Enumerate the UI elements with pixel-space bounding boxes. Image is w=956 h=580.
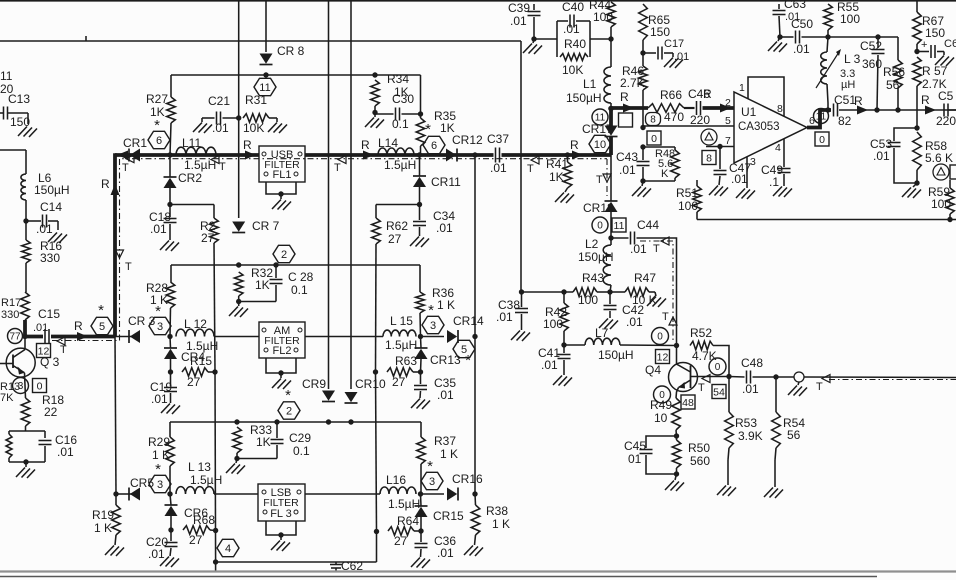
svg-text:C43: C43	[616, 150, 638, 164]
svg-text:C52: C52	[860, 39, 882, 53]
svg-text:560: 560	[690, 454, 710, 468]
svg-text:CR16: CR16	[452, 472, 483, 486]
wire bottom border	[0, 572, 956, 577]
resistor R15	[182, 354, 215, 389]
inductor L13	[176, 460, 222, 494]
svg-text:R: R	[921, 93, 930, 107]
hex node 3 c	[149, 461, 171, 493]
text T bus b	[334, 156, 346, 175]
svg-text:2.7K: 2.7K	[620, 76, 645, 90]
node C43 top	[640, 144, 645, 149]
wire bus vert thin	[115, 337, 116, 495]
svg-text:360: 360	[862, 57, 882, 71]
svg-text:K: K	[661, 168, 669, 180]
svg-text:7: 7	[725, 135, 731, 147]
wire out to jack	[776, 376, 794, 378]
wire top feed to CR10	[350, 0, 352, 389]
square node 12 a	[37, 344, 51, 358]
transistor Q3	[0, 337, 35, 399]
svg-text:L14: L14	[378, 136, 398, 150]
diode CR3	[128, 314, 156, 343]
svg-text:C63: C63	[784, 0, 806, 11]
svg-text:*: *	[285, 387, 291, 404]
node R50 bottom	[674, 471, 679, 476]
wire FL2 to L15	[305, 336, 383, 338]
node CR3 L12	[167, 334, 172, 339]
resistor R58	[913, 132, 953, 183]
svg-text:8: 8	[650, 115, 656, 126]
svg-text:R37: R37	[434, 434, 456, 448]
svg-text:R47: R47	[634, 271, 656, 285]
svg-text:T: T	[653, 243, 660, 255]
svg-text:2: 2	[286, 406, 292, 418]
arrow T C42	[662, 311, 677, 325]
svg-text:.01: .01	[510, 14, 527, 28]
resistor R32	[234, 266, 273, 302]
wire CR18 to C44 node	[610, 212, 612, 238]
svg-text:T: T	[60, 344, 67, 356]
svg-text:1.5µH: 1.5µH	[384, 158, 416, 172]
transistor Q4	[669, 346, 730, 399]
node CR9 railC	[326, 419, 331, 424]
svg-text:.01: .01	[731, 172, 748, 186]
ground C34	[410, 237, 429, 248]
node Q4 out	[726, 374, 731, 379]
ground R19	[105, 546, 124, 557]
text R13	[0, 381, 20, 404]
capacitor C30	[375, 92, 421, 131]
bracket C45 R50	[624, 436, 677, 474]
node R58 top	[914, 125, 919, 130]
capacitor C46	[684, 87, 734, 127]
jack circle	[794, 372, 804, 382]
wire top sheet edge	[0, 0, 956, 2]
node R42 bottom	[561, 342, 566, 347]
node R56 bottom	[895, 107, 900, 112]
arrow hexrow	[74, 319, 88, 341]
wire rail B	[171, 264, 420, 266]
bracket C16	[6, 431, 77, 462]
svg-text:0: 0	[657, 332, 663, 343]
ground C19	[161, 404, 180, 415]
svg-text:L 12: L 12	[184, 317, 207, 331]
wire CR14 CR16 vertical	[474, 155, 476, 494]
bracket C53	[870, 128, 917, 183]
ground C63	[768, 37, 787, 52]
svg-text:*: *	[425, 121, 431, 138]
svg-text:*: *	[155, 303, 161, 320]
node C21 CR7line	[236, 115, 241, 120]
svg-text:.01: .01	[742, 382, 759, 396]
svg-text:R15: R15	[190, 354, 212, 368]
diode CR2	[164, 155, 203, 205]
hex node 5 a	[91, 302, 113, 335]
inductor L11	[176, 136, 216, 172]
svg-text:FL1: FL1	[273, 169, 292, 181]
svg-text:27: 27	[388, 232, 402, 246]
svg-text:R63: R63	[395, 354, 417, 368]
svg-text:.01: .01	[619, 163, 636, 177]
svg-text:R51: R51	[676, 186, 698, 200]
svg-text:R19: R19	[92, 508, 114, 522]
svg-text:µH: µH	[841, 79, 855, 91]
wire C44 to Q4 base	[637, 238, 677, 346]
svg-text:470: 470	[664, 110, 684, 124]
hex node 11 a	[254, 78, 276, 95]
svg-text:3: 3	[429, 476, 435, 488]
svg-text:R: R	[570, 138, 579, 152]
resistor R59	[928, 180, 954, 220]
node CR5 L13	[167, 491, 172, 496]
svg-text:C40: C40	[562, 0, 584, 14]
square node 0 b	[815, 132, 829, 146]
node C63	[777, 34, 782, 39]
svg-text:R66: R66	[660, 88, 682, 102]
svg-text:10K: 10K	[243, 121, 264, 135]
svg-text:0: 0	[37, 380, 43, 392]
node bus L14 right	[417, 152, 422, 157]
arrow T hexrow	[57, 337, 67, 356]
hex node 2 a	[273, 245, 295, 262]
wire R44 to L1	[610, 39, 612, 67]
ground C39	[523, 39, 542, 54]
svg-text:11: 11	[614, 220, 625, 232]
svg-text:220: 220	[690, 113, 710, 127]
filter FL3 box	[258, 484, 305, 521]
text partial C11	[0, 69, 14, 96]
svg-text:1: 1	[739, 82, 745, 94]
capacitor C42	[604, 292, 645, 329]
capacitor C28	[239, 265, 314, 302]
node C17	[640, 50, 645, 55]
arrow T Q4	[698, 375, 710, 395]
ground R50	[665, 474, 684, 491]
inductor L3	[816, 37, 861, 110]
wire top feed to CR8	[265, 0, 267, 52]
capacitor C50	[780, 17, 828, 56]
svg-text:L2: L2	[585, 237, 599, 251]
inductor L6	[21, 171, 70, 200]
svg-text:220: 220	[936, 114, 956, 128]
node L15 right	[418, 334, 423, 339]
dashdot bus	[52, 159, 128, 341]
node R59 bottom	[947, 217, 952, 222]
arrow bus corner	[117, 151, 128, 160]
svg-text:7K: 7K	[0, 392, 14, 404]
ground C38	[511, 331, 530, 342]
square node 12 b	[656, 350, 670, 364]
wire top feed to CR7	[238, 0, 240, 218]
svg-text:330: 330	[40, 251, 60, 265]
svg-text:C6: C6	[944, 38, 956, 50]
svg-text:1K: 1K	[150, 105, 165, 119]
svg-text:C51: C51	[834, 93, 856, 107]
svg-text:*: *	[428, 302, 434, 319]
resistor R49	[650, 398, 680, 436]
text T L11	[211, 156, 226, 174]
svg-text:R62: R62	[386, 219, 408, 233]
text C40	[562, 0, 584, 36]
diode CR5	[129, 476, 154, 501]
filter FL1 box	[259, 146, 305, 182]
hex node 2 b	[278, 387, 300, 419]
svg-text:11: 11	[0, 69, 13, 83]
resistor R62	[372, 205, 409, 247]
svg-text:.01: .01	[212, 121, 229, 135]
svg-text:T: T	[219, 161, 226, 173]
wire y37 line	[828, 36, 898, 38]
svg-text:0: 0	[715, 362, 721, 373]
capacitor C34	[413, 205, 455, 237]
wire L13 to FL3	[214, 493, 258, 495]
wire R62 rail down2	[376, 372, 377, 532]
svg-text:R53: R53	[735, 416, 757, 430]
svg-text:1 K: 1 K	[492, 517, 510, 531]
ground C13	[18, 127, 37, 138]
resistor R46	[620, 53, 647, 128]
hex node 3 b	[422, 302, 444, 334]
arrow T out	[816, 375, 830, 394]
svg-text:77: 77	[9, 332, 21, 343]
wire R17 to Q3 node	[23, 320, 27, 337]
node R33 railC	[234, 419, 239, 424]
square node 8 b	[702, 151, 716, 165]
text pin2	[725, 97, 731, 109]
svg-text:.01: .01	[496, 310, 513, 324]
svg-text:5: 5	[99, 321, 105, 333]
wire C34node to R62	[376, 204, 420, 206]
svg-text:C5: C5	[938, 89, 954, 103]
svg-text:R41: R41	[546, 157, 568, 171]
wire R2 rail down	[214, 243, 215, 372]
resistor R55	[824, 0, 861, 37]
svg-text:0: 0	[597, 221, 603, 232]
node R64 left	[374, 529, 379, 534]
svg-text:.01: .01	[33, 322, 48, 334]
resistor R33	[233, 423, 273, 459]
circle node 0 c	[652, 328, 669, 345]
wire C18node to R2	[170, 204, 214, 206]
svg-text:8: 8	[706, 152, 712, 164]
capacitor C63	[773, 0, 807, 37]
diode CR9	[302, 377, 335, 402]
svg-text:CR 8: CR 8	[277, 44, 305, 58]
node C20	[168, 527, 173, 532]
svg-text:T: T	[122, 162, 129, 174]
node R34 bottom	[372, 110, 377, 115]
capacitor C6x	[917, 38, 956, 58]
wire CR17 bold	[609, 108, 613, 126]
svg-text:C30: C30	[392, 92, 414, 106]
svg-text:100: 100	[840, 12, 860, 26]
wire x215 tail	[215, 562, 217, 571]
arrow bold R	[620, 90, 634, 113]
capacitor C37	[487, 132, 509, 175]
resistor R57	[913, 57, 948, 128]
svg-text:T: T	[527, 163, 534, 175]
svg-text:CR10: CR10	[355, 377, 386, 391]
wire row F	[522, 291, 574, 293]
node C44	[608, 235, 613, 240]
diode CR15	[415, 494, 465, 531]
svg-text:C29: C29	[289, 431, 311, 445]
svg-text:L7: L7	[595, 326, 609, 340]
resistor R44	[589, 0, 615, 39]
node CR7 railB	[236, 262, 241, 267]
wire rail C	[170, 421, 421, 423]
diode CR4	[164, 337, 205, 373]
svg-text:L11: L11	[182, 136, 201, 150]
svg-text:11: 11	[816, 112, 827, 123]
diode CR18	[583, 201, 618, 215]
wire FL3 to L16	[305, 493, 380, 495]
svg-text:R: R	[74, 319, 83, 333]
svg-text:150µH: 150µH	[34, 183, 70, 197]
svg-text:C50: C50	[791, 17, 813, 31]
wire AM row	[115, 336, 132, 338]
svg-text:100: 100	[578, 293, 598, 307]
svg-text:R27: R27	[146, 92, 168, 106]
svg-text:.01: .01	[793, 42, 810, 56]
capacitor C49	[761, 139, 791, 189]
wire hexrow bold	[25, 335, 115, 339]
svg-text:.01: .01	[436, 221, 453, 235]
svg-text:5: 5	[725, 115, 731, 127]
circle node 11 c	[814, 109, 829, 124]
wire pin3	[747, 156, 756, 188]
svg-text:R34: R34	[387, 72, 409, 86]
node rail D left	[213, 559, 218, 564]
hex node 3 a	[149, 303, 171, 335]
svg-text:150: 150	[650, 25, 670, 39]
circle node 11 b	[592, 109, 608, 125]
node bus CR12 out	[472, 152, 477, 157]
ground C20	[160, 557, 179, 568]
svg-text:CR18: CR18	[583, 201, 614, 215]
node bus R41	[565, 152, 570, 157]
ground C43	[632, 181, 651, 197]
svg-text:27: 27	[189, 533, 203, 547]
resistor R65	[639, 4, 671, 53]
svg-text:R: R	[703, 87, 712, 101]
svg-text:8: 8	[777, 103, 783, 115]
wire bus to CR18	[610, 155, 612, 201]
circle node 77	[8, 329, 23, 344]
node R68 right	[213, 528, 218, 533]
ground pin3	[736, 189, 755, 200]
svg-text:100: 100	[678, 199, 698, 213]
wire L6 to C14 node	[25, 200, 27, 240]
wire x215 rail	[214, 372, 217, 562]
svg-text:48: 48	[682, 397, 694, 409]
circle node 0 e	[654, 386, 671, 403]
ground R32	[229, 302, 248, 318]
node R58 bottom	[914, 180, 919, 185]
ground C6x	[935, 56, 954, 67]
svg-text:U1: U1	[741, 105, 757, 119]
svg-text:.01: .01	[490, 161, 507, 175]
svg-text:3: 3	[750, 156, 756, 168]
text Q3	[40, 355, 60, 369]
inductor L14	[378, 136, 416, 172]
svg-text:T: T	[698, 382, 705, 394]
svg-text:C21: C21	[208, 94, 230, 108]
resistor R27	[146, 75, 175, 155]
svg-text:CR13: CR13	[430, 353, 461, 367]
svg-text:R17: R17	[1, 297, 21, 309]
node L2 bottom	[607, 289, 612, 294]
node R15 left	[168, 369, 173, 374]
wire L1 to bold node	[610, 103, 612, 109]
rounded node 8	[646, 113, 661, 126]
svg-text:C45: C45	[624, 439, 646, 453]
diode CR10	[345, 377, 387, 403]
resistor R42	[543, 292, 568, 345]
node x521 rowF	[519, 289, 524, 294]
hex node 6 a	[148, 117, 170, 149]
svg-text:3: 3	[430, 320, 436, 332]
resistor R19	[92, 494, 120, 545]
svg-text:R31: R31	[245, 93, 267, 107]
svg-text:1 K: 1 K	[94, 521, 112, 535]
svg-text:R: R	[854, 94, 863, 108]
diode CR16	[421, 472, 484, 501]
node CR14 out	[472, 334, 477, 339]
node C52 top	[875, 34, 880, 39]
resistor R67	[913, 0, 946, 52]
svg-text:1.5µH: 1.5µH	[385, 338, 417, 352]
svg-text:CR1: CR1	[123, 136, 147, 150]
square node 54	[712, 385, 726, 399]
node R55 L3	[825, 34, 830, 39]
resistor R37	[417, 422, 458, 494]
wire top rail	[0, 36, 521, 41]
circle node 3 q3	[13, 378, 29, 394]
svg-text:1 K: 1 K	[437, 298, 455, 312]
diode CR11	[413, 155, 461, 205]
square box empty	[619, 113, 633, 127]
wire y75 rail	[171, 74, 421, 76]
node R44 bottom	[608, 36, 613, 41]
dashdot bus2	[132, 158, 607, 160]
wire C39 to bracket	[534, 38, 557, 40]
ground R54	[764, 460, 783, 498]
hex node 5 b	[453, 340, 475, 369]
square edge	[950, 165, 956, 179]
svg-text:27: 27	[394, 534, 408, 548]
diode CR6	[165, 494, 209, 530]
svg-text:R52: R52	[690, 326, 712, 340]
svg-text:1K: 1K	[256, 435, 271, 449]
arrow bus a	[243, 138, 256, 160]
svg-text:4.7K: 4.7K	[692, 349, 717, 363]
ground R53	[717, 460, 736, 496]
node L16 right	[418, 491, 423, 496]
svg-text:.01: .01	[437, 388, 454, 402]
capacitor C48	[729, 356, 776, 396]
svg-text:*: *	[465, 352, 471, 369]
svg-text:0.1: 0.1	[392, 117, 409, 131]
svg-text:4: 4	[775, 142, 781, 154]
resistor R29	[148, 422, 174, 494]
inductor L2	[578, 237, 614, 292]
svg-text:R40: R40	[564, 37, 586, 51]
arrow bus vertical R	[101, 177, 120, 195]
svg-text:100: 100	[593, 10, 613, 24]
diode CR7	[232, 219, 279, 233]
svg-text:T: T	[334, 162, 341, 174]
svg-text:T: T	[816, 381, 823, 393]
